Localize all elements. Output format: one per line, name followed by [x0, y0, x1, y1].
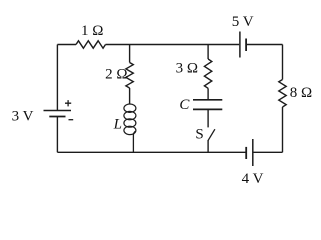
wire bottom middle segment	[57, 151, 246, 153]
svg-text:2 Ω: 2 Ω	[105, 66, 127, 82]
wire top-left segment	[57, 44, 76, 46]
battery B4V negative plate	[245, 147, 247, 159]
wire left upper segment	[56, 45, 58, 111]
battery B3V plus sign	[65, 100, 71, 106]
svg-text:3 Ω: 3 Ω	[176, 60, 198, 76]
battery B5V negative plate	[245, 39, 247, 52]
wire branch2 top	[207, 45, 209, 60]
capacitor C bottom plate	[193, 108, 222, 110]
wire branch2 to capacitor	[207, 88, 209, 100]
battery B3V positive plate	[44, 110, 72, 112]
svg-text:8 Ω: 8 Ω	[290, 85, 312, 101]
battery B5V positive plate	[239, 32, 241, 58]
wire top middle segment	[106, 44, 240, 46]
wire right lower segment	[282, 107, 284, 152]
svg-text:S: S	[195, 127, 203, 143]
wire switch to bottom	[207, 140, 209, 152]
wire top right segment	[247, 44, 283, 46]
resistor R2 2ohm zigzag	[126, 63, 133, 89]
inductor L coil loop1	[124, 104, 136, 112]
resistor R1 1ohm zigzag	[76, 41, 106, 48]
svg-text:1 Ω: 1 Ω	[81, 23, 103, 39]
inductor L coil loop3	[124, 119, 136, 127]
svg-text:C: C	[179, 97, 190, 113]
wire left lower segment	[56, 117, 58, 153]
battery B3V minus sign	[69, 119, 74, 121]
wire branch1 top	[129, 45, 131, 63]
svg-text:5 V: 5 V	[232, 14, 254, 30]
wire bottom right segment	[253, 151, 282, 153]
switch S blade	[208, 129, 215, 140]
inductor L coil loop4	[124, 126, 136, 134]
wire branch1 bottom	[133, 131, 135, 152]
resistor R3 3ohm zigzag	[204, 59, 211, 88]
svg-text:4 V: 4 V	[242, 171, 264, 187]
wire right upper segment	[282, 45, 284, 80]
inductor L coil loop2	[124, 111, 136, 119]
wire branch1 mid	[129, 88, 131, 104]
battery B4V positive plate	[252, 139, 254, 166]
wire capacitor to switch	[207, 109, 209, 127]
svg-text:L: L	[113, 117, 122, 133]
battery B3V negative plate	[49, 116, 65, 118]
capacitor C top plate	[193, 99, 222, 101]
svg-text:3 V: 3 V	[12, 108, 34, 124]
resistor R8 8ohm zigzag	[279, 80, 286, 108]
